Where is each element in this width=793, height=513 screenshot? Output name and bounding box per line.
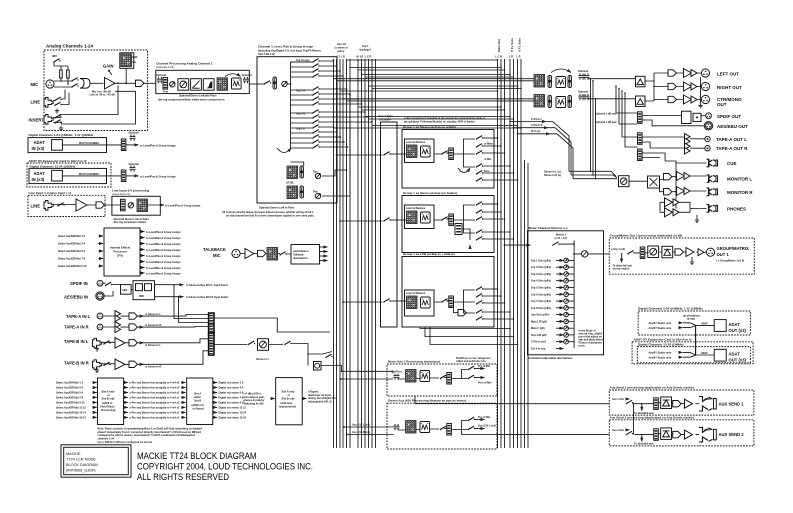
svg-text:To allow/full amt: To allow/full amt [634, 412, 654, 415]
wire tape-b L [102, 341, 130, 344]
Line input processing box [112, 196, 160, 215]
svg-text:x-Pre-seq Stereo-Aux assign: x-Pre-seq Stereo-Aux assign [130, 412, 165, 415]
svg-text:to Stereo In L: to Stereo In L [145, 313, 161, 316]
SRC box [133, 281, 155, 300]
wire talkback out 3 [320, 255, 328, 257]
wire tape-b R feed [141, 351, 209, 365]
svg-text:INSERT: INSERT [29, 118, 45, 123]
svg-text:Line at -20 to +40 dB: Line at -20 to +40 dB [90, 93, 115, 97]
svg-text:Select Aux/GRU/dd 13-14: Select Aux/GRU/dd 13-14 [56, 412, 86, 415]
svg-text:Select Aux/GRU/dd 1-2: Select Aux/GRU/dd 1-2 [58, 235, 86, 238]
connector aux1 patch [654, 398, 659, 410]
junction insert [117, 82, 119, 84]
connector tape-b L jack [93, 338, 102, 348]
svg-text:x-Pre-seq Stereo-Aux assign: x-Pre-seq Stereo-Aux assign [130, 407, 165, 410]
ground line stage [55, 109, 59, 114]
connector line4 out [96, 202, 104, 208]
svg-text:SPDIF IN: SPDIF IN [70, 281, 88, 286]
svg-text:Pre of Mix: Pre of Mix [478, 416, 491, 419]
svg-text:PHONES: PHONES [727, 207, 746, 212]
spdif converter box [682, 111, 692, 123]
svg-text:AUX SEND 2: AUX SEND 2 [719, 432, 745, 437]
switch mic select A [71, 78, 78, 82]
wire monitor select in 3 [573, 178, 617, 180]
wire aux910 fan [451, 421, 497, 435]
wire trunk 6 [369, 85, 518, 87]
wire aux1 input left [342, 371, 394, 373]
svg-text:Optional: Optional [129, 163, 139, 166]
svg-text:MULTI-CHANNEL: MULTI-CHANNEL [79, 173, 100, 176]
wire slot1 out 5 [124, 401, 128, 403]
wire trunk 2 [350, 67, 501, 69]
fader summing grp2 [455, 224, 462, 235]
svg-text:x-Pre-seq Stereo-Aux assign: x-Pre-seq Stereo-Aux assign [130, 392, 165, 395]
svg-text:LEFT OUT: LEFT OUT [717, 71, 739, 76]
wire trunk 7 [372, 88, 521, 90]
master R delay [556, 97, 566, 108]
wire slot1 in 5 [93, 401, 97, 403]
svg-text:Grp 1 Solo (pfl/s): Grp 1 Solo (pfl/s) [531, 259, 551, 262]
adat out box 2 outer [632, 342, 753, 364]
switch grp3 out 3 [476, 301, 483, 305]
wire FX input 2 [99, 243, 104, 245]
wire main feed C [343, 98, 535, 100]
svg-text:ADAT: ADAT [34, 140, 46, 145]
switch ch mute [264, 81, 271, 85]
bus aux 5 [346, 59, 348, 448]
slot box 2 [187, 378, 213, 425]
wire gm xlr [704, 251, 707, 253]
svg-text:(#0F0606_GJDF): (#0F0606_GJDF) [66, 469, 96, 473]
capacitor aux910 [394, 424, 400, 430]
meter options box [528, 231, 604, 355]
EQ block line proc [137, 199, 148, 212]
wire aux2 chain [635, 433, 700, 436]
op-amp right out [684, 82, 692, 91]
bus pfl R [513, 59, 515, 448]
svg-text:ADAT I/O Expansion Card in Slo: ADAT I/O Expansion Card in Slot A or B [28, 159, 88, 163]
wire tape-b R label [138, 363, 144, 365]
switch assign 9 [312, 110, 319, 114]
group type selector column [381, 122, 398, 327]
wire FX output 7 [140, 267, 145, 269]
level balance box 2 [405, 205, 435, 229]
svg-text:St In (x): St In (x) [531, 130, 540, 133]
SECTION: LEFT COLUMN [27, 44, 330, 373]
wire fader L out [291, 162, 347, 176]
wire slot3 in [271, 398, 275, 400]
ADAT expansion dashed enclosure [27, 163, 111, 187]
level block grp2 [407, 211, 418, 224]
svg-text:CUE: CUE [727, 161, 737, 166]
junction meters trunk [573, 243, 575, 245]
wire group2 input [340, 220, 383, 222]
stereo select aux cluster [256, 341, 342, 372]
wire slot1 out 6 [124, 406, 128, 408]
svg-text:Aux 1-4: Aux 1-4 [296, 90, 306, 93]
fader L [300, 166, 303, 178]
svg-text:Solo: Solo [484, 170, 490, 173]
level block R [287, 186, 298, 199]
level block L [287, 166, 298, 179]
wire trunk 5 [365, 76, 514, 78]
wire aux1 input [341, 378, 393, 380]
wire grp2 aux [462, 229, 470, 247]
svg-text:dbx-ing compression/limit, w/d: dbx-ing compression/limit, w/dbx stereo … [158, 98, 225, 102]
wire SPDIF branch down L [174, 285, 209, 319]
wire trunk 12 [369, 118, 514, 120]
svg-text:48V: 48V [52, 54, 57, 58]
switch insert [54, 115, 61, 119]
connector tape-a R XLR [97, 324, 103, 330]
svg-text:Up to # in4 x2: Up to # in4 x2 [163, 392, 180, 395]
fader ch trim [163, 78, 168, 90]
SECTION: BOTTOM [56, 341, 342, 482]
slot box 1 [98, 378, 124, 425]
master L fader [548, 76, 551, 88]
op-amp tape-a L [115, 311, 121, 322]
level balance box 3 [405, 290, 435, 316]
svg-text:to Level/Pan & Group Assign: to Level/Pan & Group Assign [146, 267, 181, 270]
wire slot1 in 8 [93, 416, 97, 418]
svg-text:SPDIF OUT: SPDIF OUT [717, 114, 741, 119]
wire stack1 out [214, 318, 330, 332]
switch assign 4 [312, 74, 319, 78]
svg-text:Optional Stereo Link in Pairs: Optional Stereo Link in Pairs [259, 205, 295, 209]
svg-text:to Stereo-In/Aux 9/10 L Input: to Stereo-In/Aux 9/10 L Input Select [186, 284, 228, 287]
potentiometer ch pan [282, 81, 287, 86]
svg-text:MONITOR L: MONITOR L [727, 177, 752, 182]
connector right out D [668, 83, 676, 89]
svg-text:Digital Channels 13-24 @96kHz: Digital Channels 13-24 @96kHz [638, 343, 684, 347]
svg-text:Aux 9/10 L (x4): Aux 9/10 L (x4) [478, 424, 496, 427]
svg-text:Level & Balance: Level & Balance [406, 141, 426, 144]
svg-text:mic: mic [132, 61, 137, 64]
connector aux2 TRS jack [699, 427, 716, 442]
wire aux910 chain [398, 429, 447, 431]
wire main feed M [347, 100, 535, 102]
svg-text:Analog Channels 1-24: Analog Channels 1-24 [46, 44, 94, 49]
summing node 2-track [258, 339, 269, 351]
svg-text:x-Pre-seq Stereo-Aux assign: x-Pre-seq Stereo-Aux assign [130, 397, 165, 400]
svg-text:L C R: L C R [496, 55, 503, 58]
connector ADAT2 patch [121, 170, 126, 182]
wire tape-b R [102, 363, 130, 366]
svg-text:Select Aux/GRU/dd 3-4: Select Aux/GRU/dd 3-4 [56, 387, 84, 390]
switch aux1 out 1 [468, 366, 475, 370]
wire FX output 5 [140, 255, 145, 257]
wire aux1 chain [398, 378, 447, 380]
capacitor master L [579, 74, 585, 80]
switch assign 2 [312, 64, 319, 68]
connector ADAT optical 1 [52, 140, 63, 151]
stereo aux box [387, 403, 497, 449]
svg-text:Main L/R (pfl): Main L/R (pfl) [531, 320, 547, 323]
wire fader R out [322, 95, 350, 196]
switch assign 13 [312, 130, 319, 134]
wire aux1 chain [635, 402, 700, 405]
svg-text:2-Trk In (sel): 2-Trk In (sel) [531, 341, 546, 344]
svg-text:Stereo In 1: Stereo In 1 [256, 358, 269, 361]
switch gm [627, 251, 634, 255]
svg-text:Digital out stereo 1-2: Digital out stereo 1-2 [219, 382, 244, 385]
svg-text:Up to # in4 x2: Up to # in4 x2 [163, 402, 180, 405]
switch assign 5 [312, 87, 319, 91]
connector aux2 patch [654, 429, 659, 441]
wire talkback to router [278, 253, 292, 256]
svg-text:Select Aux/GRU/dd 5-6: Select Aux/GRU/dd 5-6 [58, 250, 86, 253]
switch assign 8 [312, 102, 319, 106]
wire ADAT1 to assign [126, 144, 139, 146]
junction mic [60, 80, 62, 82]
aux send 1 box [609, 390, 754, 415]
svg-text:OUT 1: OUT 1 [717, 252, 730, 257]
wire slot2 in 4 [181, 396, 185, 398]
svg-text:OUT: OUT [717, 102, 727, 107]
wire slot2 in 2 [181, 387, 185, 389]
level balance box 1 [405, 139, 435, 163]
wire gm chain [634, 251, 698, 254]
ground gm [691, 257, 693, 260]
svg-text:Grp Assign: Grp Assign [296, 59, 310, 62]
summing node meters [582, 251, 588, 257]
wire grp1 chain [434, 153, 449, 154]
switch group2 type [383, 218, 390, 222]
svg-text:to Level/Pan & Group Assign: to Level/Pan & Group Assign [146, 249, 181, 252]
svg-text:Group/Matrix Out 1 (processing: Group/Matrix Out 1 (processing duplicate… [610, 233, 683, 237]
svg-text:Aux Send 1 processing (duplica: Aux Send 1 processing (duplicated on Aux… [610, 386, 694, 390]
connector SPDIF XLR [97, 280, 103, 286]
svg-text:Up to # in4 x2: Up to # in4 x2 [163, 407, 180, 410]
wire tape-a L jack [690, 138, 705, 140]
switch group1 type [383, 152, 390, 156]
delay block [232, 78, 242, 89]
svg-text:Aux 5-8: Aux 5-8 [296, 113, 306, 116]
master R meter block [534, 95, 545, 108]
wire grp3 to fan [453, 290, 475, 313]
connector tape-b R out [129, 361, 137, 367]
wire main feed L [334, 78, 535, 80]
connector line4 jack [44, 201, 53, 211]
switch SPDIF/AES select [105, 282, 112, 286]
fader ch level [273, 77, 276, 89]
wire slot3 out [302, 398, 306, 400]
wire slot1 out 4 [124, 396, 128, 398]
svg-text:Digital Channels 1-24 @48kHz,: Digital Channels 1-24 @48kHz, 1-12 @96kH… [638, 307, 703, 311]
wire talkback out 1 [320, 246, 328, 248]
svg-text:MACKIE: MACKIE [66, 452, 81, 456]
master L delay [556, 77, 566, 88]
svg-text:XDR: XDR [132, 56, 137, 59]
wire phones [660, 202, 707, 212]
EQ block [191, 79, 202, 91]
connector aux1 D [673, 401, 681, 407]
svg-text:L R: L R [517, 55, 521, 58]
svg-text:ADAT: ADAT [701, 352, 708, 355]
wire phantom feed [54, 62, 68, 70]
wire slot2 out 7 [213, 411, 217, 413]
wire slot2 out 2 [213, 387, 217, 389]
wire tape-b L feed [141, 339, 209, 343]
switch 2-track select [248, 341, 255, 345]
svg-text:Individual adjustable alternat: Individual adjustable alternatives [529, 356, 573, 360]
svg-text:MIC: MIC [213, 253, 221, 258]
gate block [217, 78, 228, 91]
wire FX output 1 [140, 231, 145, 233]
connector CUE phones jack [707, 159, 718, 167]
mono aux 1 box [387, 364, 497, 396]
Internal FX processor box [104, 228, 140, 276]
wire slot1 in 4 [93, 396, 97, 398]
svg-text:Digital Channels 13-24 @96kHz: Digital Channels 13-24 @96kHz [30, 164, 76, 168]
svg-text:on odd channel and full R in e: on odd channel and full R in even channe… [226, 215, 314, 218]
svg-text:MONITOR R: MONITOR R [727, 190, 753, 195]
svg-text:1 2 LR: 1 2 LR [337, 55, 345, 58]
bus grp CR [375, 59, 377, 448]
wire phantom to mic lines [61, 78, 68, 84]
potentiometer gain [109, 70, 112, 75]
svg-text:ADAT: ADAT [701, 322, 708, 325]
svg-text:Main C (pfl): Main C (pfl) [531, 327, 545, 330]
switch assign 1 [312, 59, 319, 63]
wire monitor select in 2 [571, 175, 617, 178]
svg-text:to Level/Pan & Group Assign: to Level/Pan & Group Assign [140, 174, 176, 178]
svg-text:to Main: to Main [484, 143, 493, 146]
svg-text:Grp 7 Solo (pfl/s): Grp 7 Solo (pfl/s) [531, 300, 551, 303]
ADAT IN box 1 [28, 138, 107, 153]
svg-text:Digital out stereo 3-4: Digital out stereo 3-4 [219, 387, 244, 390]
op-amp tape-a R out [685, 143, 691, 154]
wire master drop R [592, 81, 594, 175]
group box 1 [402, 130, 494, 189]
svg-text:Digital out stereo 7-8: Digital out stereo 7-8 [219, 397, 244, 400]
wire insert send loop [53, 86, 136, 125]
svg-text:to Stereo-In/Aux 9/10 R Input: to Stereo-In/Aux 9/10 R Input Select [186, 296, 228, 299]
svg-text:to Level/Pan & Group Assign: to Level/Pan & Group Assign [146, 243, 181, 246]
svg-text:MACKIE TT24 BLOCK DIAGRAM: MACKIE TT24 BLOCK DIAGRAM [137, 451, 257, 461]
svg-text:to Level/Pan & Group Assign: to Level/Pan & Group Assign [146, 273, 181, 276]
connector ADAT1 patch [121, 139, 126, 151]
svg-text:+4dBV: +4dBV [704, 398, 712, 401]
svg-text:Stereo Aux 9/10 Processing (fe: Stereo Aux 9/10 Processing (feature as p… [388, 399, 466, 403]
bus afl L [517, 59, 519, 448]
connector ctr out D [668, 96, 676, 102]
bus grp R [364, 59, 366, 448]
delay block grp3 [421, 297, 431, 308]
svg-text:x-Pre-seq Stereo-Aux assign: x-Pre-seq Stereo-Aux assign [130, 402, 165, 405]
level block grp3 [407, 296, 418, 309]
svg-text:ADAT I/O Expansion Card in Slo: ADAT I/O Expansion Card in Slot A or B [633, 338, 693, 342]
wire aux1 down pickup [414, 396, 416, 404]
fader aux910 [447, 424, 452, 436]
svg-text:Optional x dB pad: Optional x dB pad [595, 112, 617, 115]
wire trunk 4 [362, 74, 511, 76]
switch grp1 out 2 [476, 144, 483, 148]
wire gm down tap [621, 254, 623, 263]
fader grp1 [449, 148, 454, 160]
svg-text:Grp 2 Solo (pfl/s): Grp 2 Solo (pfl/s) [531, 266, 551, 269]
transformer input stage [80, 79, 90, 89]
svg-text:Stereo In R (x): Stereo In R (x) [544, 174, 561, 177]
bus grp CC [371, 59, 373, 448]
op-amp monitor L [677, 172, 685, 181]
svg-text:Slot B only: Slot B only [102, 397, 116, 400]
svg-text:IN (x3): IN (x3) [32, 177, 45, 182]
svg-text:Digital Channels 1-24 @48kHz,: Digital Channels 1-24 @48kHz, 1-12 @96kH… [29, 133, 94, 137]
wire slot2 in 5 [181, 401, 185, 403]
switch line select [54, 97, 61, 101]
svg-text:(channels 2-24): (channels 2-24) [156, 65, 174, 69]
svg-text:ADAT: ADAT [729, 322, 741, 327]
connector spdif patch [638, 112, 643, 124]
wire monitor to matrix [629, 180, 648, 182]
svg-text:Any/6? Studio only: Any/6? Studio only [649, 356, 672, 359]
svg-text:OUT (x3): OUT (x3) [729, 357, 747, 362]
svg-text:To allow/full amt: To allow/full amt [634, 443, 654, 446]
svg-text:of poly-switch: of poly-switch [613, 268, 630, 271]
switch assign 11 [312, 120, 319, 124]
aux1 limiter block [661, 397, 672, 409]
svg-text:Select Aux/GRU/dd 7-8: Select Aux/GRU/dd 7-8 [56, 397, 84, 400]
SECTION: RIGHT [334, 38, 755, 448]
wire tape-a R feed [141, 326, 209, 329]
pan arc ch [277, 148, 291, 153]
connector XLR mic input [46, 80, 54, 88]
switch grp2 out 1 [476, 202, 483, 206]
svg-text:RIGHT OUT: RIGHT OUT [717, 85, 742, 90]
connector monitor D L [664, 174, 672, 180]
svg-text:Optional/Stereo Linkable Pairs: Optional/Stereo Linkable Pairs [179, 94, 217, 98]
wire ADAT1 multichannel [62, 144, 121, 146]
wire master drop L [590, 79, 592, 172]
svg-text:Solo L/R (afl): Solo L/R (afl) [531, 334, 547, 337]
connector aux2 D [673, 431, 681, 437]
svg-text:Grp 8 Solo (pfl/s): Grp 8 Solo (pfl/s) [531, 307, 551, 310]
wire slot2 out 5 [213, 401, 217, 403]
wire master to limiter L [588, 78, 636, 80]
wire trunk 10 [362, 109, 505, 111]
op-amp line4 buffer [76, 199, 87, 211]
channel strip box [257, 57, 337, 203]
wire grp3 LCR out C [425, 327, 514, 337]
wire tape-a out feeds [622, 91, 638, 147]
svg-text:to Level/Pan & Group Assign: to Level/Pan & Group Assign [146, 261, 181, 264]
svg-text:Digital out stereo 13-14: Digital out stereo 13-14 [219, 412, 247, 415]
wire talkback out 2 [320, 251, 328, 253]
wire monitor D feeds [660, 180, 664, 192]
wire grp2 to fan [453, 205, 475, 233]
svg-text:L R: L R [509, 55, 513, 58]
op-amp gain stage [105, 78, 116, 90]
wire slot1 out 8 [124, 416, 128, 418]
master L fader2 [568, 76, 571, 88]
connector MONITOR R phones jack [707, 188, 718, 196]
wire trunk 13 [372, 125, 518, 127]
fader grp2 [449, 214, 454, 226]
bus aux 3 [339, 59, 341, 448]
svg-text:AES/EBU IN: AES/EBU IN [64, 294, 88, 299]
svg-text:Stereo In L (x): Stereo In L (x) [544, 170, 561, 173]
connector RIGHT OUT XLR [701, 82, 709, 90]
pan pot R [315, 193, 320, 198]
wire slot1 out 3 [124, 392, 128, 394]
switch aux910 [440, 426, 447, 430]
dynamics block [203, 79, 214, 91]
bus aux 1 [333, 59, 335, 448]
svg-text:Mono Aux 1 Processing (mono/pr: Mono Aux 1 Processing (mono/pre) [388, 360, 440, 364]
switch aux send 2 [626, 431, 633, 435]
wire slot2 out 1 [213, 382, 217, 384]
